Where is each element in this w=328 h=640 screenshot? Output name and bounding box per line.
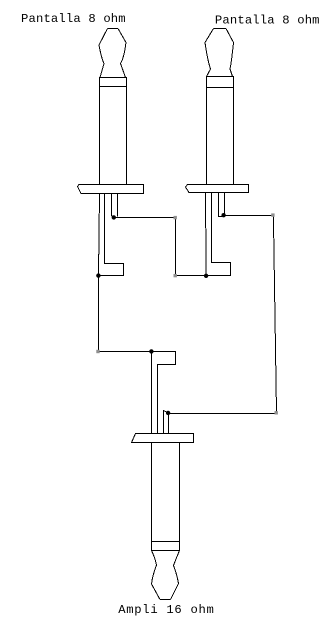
junction dot J1 tip (112, 215, 116, 219)
plug J1 sleeve lug (99, 194, 124, 276)
wire J1-tip to node A (114, 217, 176, 219)
plug J1 tip (99, 29, 126, 78)
plug J2 tip (205, 29, 234, 77)
wire node E to J3 sleeve (99, 351, 152, 353)
plug J2 collar band (207, 77, 234, 88)
wire J1-sleeve down to node E (98, 276, 100, 352)
plug J2 sleeve lug (206, 193, 231, 276)
plug J3 flange (132, 434, 194, 443)
plug J3 sleeve lug (152, 352, 176, 434)
wire node A down to node B (175, 218, 177, 276)
junction dot J3 sleeve (149, 349, 153, 353)
plug J3 tip (152, 551, 180, 600)
plug J1 collar band (100, 78, 127, 87)
node D square (275, 411, 278, 414)
plug J3 tip lug (164, 411, 169, 434)
junction dot J2 tip (221, 213, 225, 217)
node B square (174, 274, 177, 277)
wire node D to J3 tip (168, 413, 276, 415)
node E square (96, 350, 99, 353)
plug J1 flange (78, 185, 144, 194)
junction dot J2 sleeve (204, 274, 208, 278)
node C square (271, 213, 274, 216)
svg-text:Pantalla 8 ohm: Pantalla 8 ohm (215, 14, 320, 28)
node A square (174, 216, 177, 219)
plug J3 collar band (152, 542, 180, 551)
svg-text:Pantalla 8 ohm: Pantalla 8 ohm (21, 12, 126, 26)
junction dot J1 sleeve (96, 273, 100, 277)
plug J3 barrel (152, 443, 180, 542)
junction dot J3 tip (166, 411, 170, 415)
plug J1 tip lug (112, 194, 118, 218)
svg-text:Ampli 16 ohm: Ampli 16 ohm (118, 603, 214, 617)
plug J2 barrel (207, 88, 234, 185)
wire node C down right side to node D (273, 216, 276, 413)
wire J2-tip to node C (224, 215, 273, 217)
plug J2 flange (186, 185, 249, 193)
wire node B to J2 sleeve (176, 275, 207, 277)
plug J1 barrel (100, 87, 127, 185)
plug J2 tip lug (219, 193, 225, 217)
